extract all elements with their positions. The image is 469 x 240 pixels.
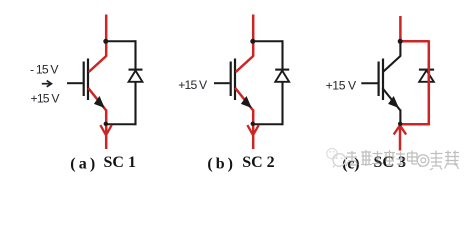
svg-text:+15 V: +15 V xyxy=(31,91,61,105)
svg-text:(a): (a) xyxy=(70,155,98,172)
svg-text:+15 V: +15 V xyxy=(326,79,357,93)
svg-text:(b): (b) xyxy=(207,155,236,172)
svg-text:SC 1: SC 1 xyxy=(104,154,136,171)
svg-text:SC 2: SC 2 xyxy=(242,154,274,171)
svg-text:- 15 V: - 15 V xyxy=(30,63,59,77)
svg-text:+15 V: +15 V xyxy=(178,78,208,92)
